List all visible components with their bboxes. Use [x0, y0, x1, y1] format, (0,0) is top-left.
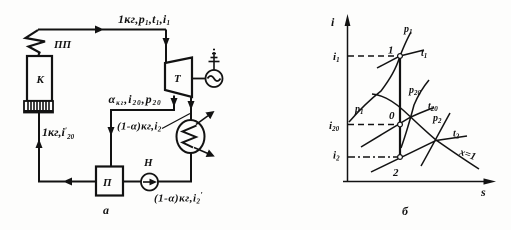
svg-text:p20: p20 [408, 85, 422, 97]
turbine T [165, 58, 192, 98]
svg-text:1: 1 [388, 45, 394, 57]
wire pump to heater [123, 181, 141, 183]
svg-text:p2: p2 [432, 113, 442, 125]
extraction tap wire [111, 96, 174, 167]
svg-text:а: а [103, 203, 109, 217]
isobar p1 [349, 32, 411, 122]
dashed i1 level [348, 55, 397, 57]
arrow up on left rail [36, 139, 43, 148]
svg-text:2: 2 [392, 167, 399, 179]
dashdot i2 level [348, 156, 397, 158]
svg-text:i: i [331, 15, 335, 29]
svg-text:х=1: х=1 [457, 147, 477, 163]
arrow down exhaust [188, 101, 195, 110]
point 2 [398, 155, 403, 160]
svg-text:p1: p1 [403, 24, 413, 36]
generator link wire [192, 78, 206, 80]
arrow down extraction [171, 98, 178, 107]
svg-text:Н: Н [143, 157, 153, 169]
isobar p20 steep branch [401, 80, 429, 148]
svg-text:t1: t1 [421, 48, 427, 60]
svg-text:t2: t2 [453, 129, 460, 141]
svg-text:1кг,p1,t1,i1: 1кг,p1,t1,i1 [118, 12, 170, 27]
i axis [347, 24, 349, 182]
expansion line 1-0-2 [399, 56, 401, 157]
svg-text:i2: i2 [333, 150, 340, 163]
svg-text:(1-α)кг,i2′: (1-α)кг,i2′ [154, 191, 203, 206]
cooling water in arrow [194, 148, 213, 156]
cooling water out arrow [196, 113, 213, 125]
isotherm t1 [377, 50, 424, 68]
exhaust wire to condenser [190, 97, 192, 121]
svg-text:1кг,i′20: 1кг,i′20 [42, 125, 75, 141]
arrow down into heater P [108, 127, 115, 136]
svg-text:0: 0 [389, 110, 395, 122]
isobar p2 branch [421, 113, 450, 166]
s axis [343, 181, 485, 183]
wire main steam top [38, 29, 166, 31]
arrow into turbine [163, 38, 170, 47]
pump N [141, 174, 158, 191]
leader line for label [162, 114, 190, 129]
svg-text:αкг,i20,p20: αкг,i20,p20 [109, 92, 162, 107]
svg-text:К: К [36, 74, 45, 86]
svg-text:б: б [402, 204, 409, 218]
svg-text:Т: Т [174, 73, 182, 85]
pump arrow [143, 181, 150, 183]
svg-text:i20: i20 [329, 120, 340, 133]
superheater PP zigzag [26, 30, 46, 55]
point 0 [398, 122, 403, 127]
boiler grate hatch [24, 101, 53, 113]
generator G [206, 70, 223, 87]
heater P [96, 167, 123, 196]
condenser [177, 120, 205, 153]
point 1 [398, 54, 403, 59]
boiler K [27, 56, 52, 101]
svg-text:t20: t20 [428, 101, 438, 113]
saturation curve x=1 [372, 94, 479, 169]
svg-text:(1-α)кг,i2: (1-α)кг,i2 [117, 121, 162, 134]
arrow left on bottom wire [63, 178, 72, 186]
isobar-isotherm wet line through 0 [361, 108, 434, 148]
wet line through 2 [371, 136, 467, 172]
svg-text:ПП: ПП [53, 39, 72, 51]
svg-text:s: s [480, 185, 486, 199]
svg-text:p1: p1 [354, 104, 364, 116]
wire arrow top [95, 26, 104, 34]
wire boiler down left rail [39, 113, 96, 182]
condensate wire condenser to pump [159, 153, 192, 182]
svg-text:П: П [102, 177, 112, 189]
generator earth mast [209, 50, 220, 71]
dashed i20 level [348, 124, 397, 126]
svg-text:i1: i1 [333, 51, 340, 64]
wire down to turbine [165, 30, 167, 63]
